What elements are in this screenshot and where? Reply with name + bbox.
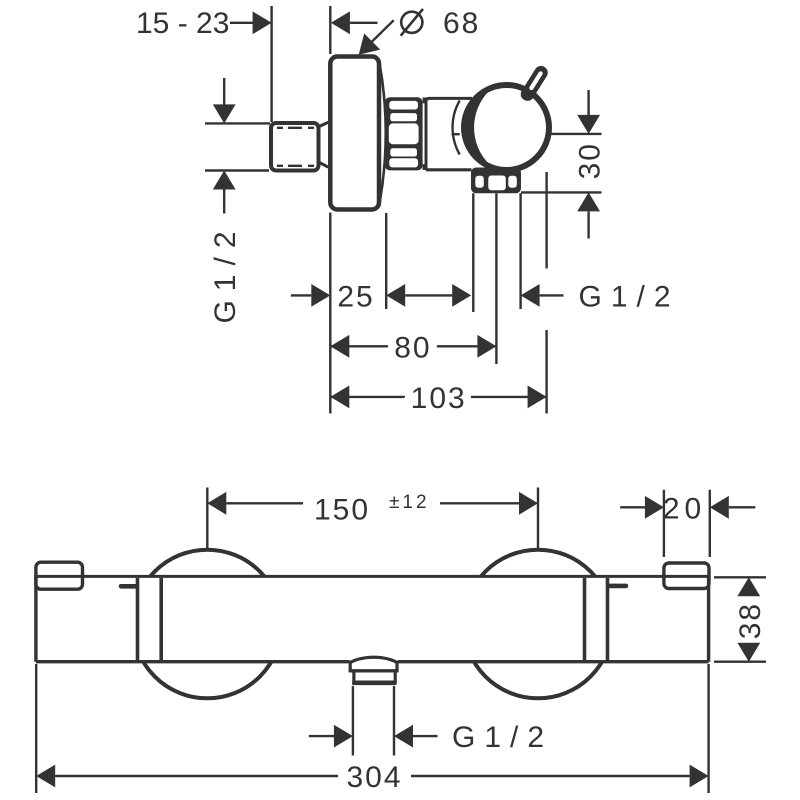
dimension 25 right tail [405,294,452,296]
outlet flange left side [349,663,352,672]
G1/2 left dimension tail top [223,78,225,105]
extension line 304 left [35,664,37,793]
G1/2 bottom arrowhead left [394,725,413,748]
svg-text:G1/2: G1/2 [452,721,553,754]
dimension 304 line right [411,775,690,777]
outlet body bottom [352,680,396,685]
dimension 150 line left [226,502,303,504]
valve body fill [426,98,472,169]
dimension 150 arrowhead right [519,492,538,515]
S-union thread dashes top [277,127,316,129]
left grip line 2 [159,578,163,660]
dimension 15-23 leader line [230,22,254,24]
svg-text:30: 30 [574,142,607,179]
dimension 38 arrowhead up [737,577,760,596]
escutcheon face arc [380,63,386,204]
right end cap tab [664,563,709,589]
union nut slot 3 [390,148,417,156]
dimension 25 left tail [291,294,311,296]
left escutcheon circle [133,550,282,699]
dimension 80 arrowhead left [330,335,349,358]
dimension 20 right tail [729,506,756,508]
union nut slot 4 [389,158,418,167]
right escutcheon circle [464,550,613,699]
handle skirt outer arc [453,101,460,155]
union nut slot middle [389,123,419,144]
S-union collar bottom diagonal [319,162,329,167]
S-union block [271,123,319,171]
svg-text:20: 20 [663,492,706,525]
dimension 30 tail bottom [587,211,589,238]
extension line 38 bottom [714,661,766,663]
valve body bottom edge [426,168,472,171]
extension line 304 right [707,664,709,793]
svg-text:±12: ±12 [389,492,430,513]
G1/2 left extension line top [205,122,270,124]
extension line 38 top [714,576,766,578]
extension line outlet left [472,193,474,312]
dimension 304 arrowhead left [36,765,55,788]
dimension 80 line [330,345,496,347]
svg-text:38: 38 [734,602,767,639]
dimension 103 arrowhead right [528,386,547,409]
extension line 150 right [537,488,539,551]
left grip line 1 [136,578,140,660]
union nut body [385,97,423,170]
extension line 20 left [663,490,665,557]
G1/2 outlet leader [540,294,564,296]
valve body outline [426,98,472,169]
bar top edge [36,575,709,578]
svg-text:25: 25 [337,280,374,313]
S-union collar top diagonal [319,122,329,127]
outlet flange right side [395,663,398,672]
bar left edge [34,575,37,662]
reference line 30 bottom [521,191,602,193]
outlet dome [349,657,399,663]
extension line 150 left [206,488,208,550]
extension line 20 right [709,490,711,557]
dimension 150 line right [440,502,519,504]
dimension 30 arrowhead up [577,192,600,211]
G1/2 left arrowhead down [213,104,236,123]
G1/2 bottom arrowhead right [334,725,353,748]
dimension 304 arrowhead right [690,765,709,788]
svg-text:15 - 23: 15 - 23 [136,7,229,40]
union nut collar top [423,98,427,104]
outlet body right side [394,671,397,684]
dimension 38 arrowhead down [737,643,760,662]
right grip line 2 [606,578,610,660]
extension line outlet right [519,193,521,309]
dimension 80 arrowhead right [477,335,496,358]
dimension 20 right arrowhead [710,496,729,519]
dimension 30 tail top [587,90,589,115]
extension line escutcheon left upper [329,6,331,54]
outlet body left side [352,671,355,684]
extension line handle right lower [545,330,547,414]
svg-text:G1/2: G1/2 [579,280,680,313]
dimension 30 arrowhead down [577,115,600,134]
dimension d68 diagonal leader [365,20,394,49]
G1/2 bottom leader [413,735,438,737]
outlet nut facet 2 [488,176,506,191]
dimension 150 arrowhead left [207,492,226,515]
handle skirt tick [452,133,460,135]
left end cap tab [36,562,83,589]
outlet nut body [471,168,521,194]
bar body fill [36,576,709,661]
bar bottom edge left segment [36,660,350,663]
G1/2 bottom left tail [309,735,334,737]
dimension d68 arrowhead [331,11,350,34]
dimension 103 line [330,396,546,398]
reference line 30 top [552,133,602,135]
dimension d68 leader line [350,22,378,24]
G1/2 left dimension tail bottom [223,190,225,214]
left safety button [121,584,137,589]
outlet nut facet 1 [475,176,484,188]
handle skirt crescent [466,91,489,164]
outlet flange bottom / body top [349,669,399,672]
extension line escutcheon left lower [329,213,331,414]
G1/2 left arrowhead up [213,171,236,190]
dimension 20 left arrowhead [645,496,664,519]
extension line escutcheon right lower [385,213,387,309]
svg-text:80: 80 [394,331,431,364]
extension line outlet left [352,686,354,756]
extension line wall face [270,6,272,122]
svg-text:103: 103 [411,382,467,415]
bar right edge [707,575,710,662]
dimension 20 left tail [620,506,645,508]
right grip line 1 [583,578,587,660]
right safety button [610,584,627,589]
dimension 15-23 arrowhead [253,11,272,34]
svg-text:150: 150 [314,494,370,527]
handle lever [528,73,542,94]
dimension 304 line left [55,775,338,777]
S-union thread dashes bottom [277,165,316,167]
extension line outlet right [393,686,395,756]
G1/2 outlet arrowhead left [521,284,540,307]
dimension d68 diagonal arrowhead [359,33,381,54]
extension line handle right upper [545,172,547,269]
svg-text:68: 68 [443,7,480,40]
union nut slot 1 [389,101,418,110]
G1/2 outlet arrowhead right [452,284,471,307]
svg-text:G1/2: G1/2 [209,222,242,323]
escutcheon disc [330,57,379,210]
G1/2 left extension line bottom [205,169,269,171]
extension line outlet center [495,193,497,364]
union nut collar bottom [423,164,427,170]
union nut slot 2 [390,113,417,121]
dimension 25 right arrowhead [386,284,405,307]
outlet nut facet 3 [508,176,517,188]
diameter symbol [401,12,422,33]
dimension 103 arrowhead left [330,386,349,409]
bar bottom edge right segment [398,660,709,663]
svg-text:304: 304 [346,761,402,794]
handle knob [464,85,549,170]
dimension 25 left arrowhead [311,284,330,307]
